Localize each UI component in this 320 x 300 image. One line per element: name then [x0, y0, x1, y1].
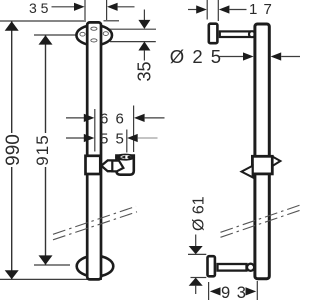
- dim 35 top arrow right-pointing: [74, 3, 85, 11]
- dim 915 arrow down: [39, 255, 53, 264]
- dim Ø61 arrow down: [189, 246, 203, 254]
- bottom bracket arm (side view): [218, 264, 247, 271]
- dim 915 arrow up: [39, 35, 53, 44]
- slide bar (side view): [255, 24, 269, 279]
- bottom wall flange ellipse (front view): [77, 256, 114, 277]
- dim 990 line upper: [11, 22, 13, 134]
- dim 35 right arrow up: [138, 42, 150, 51]
- dim 17 line right tail: [229, 9, 246, 11]
- slider lever left triangle (side view): [242, 166, 253, 178]
- hand shower axis line 1 (side view): [221, 205, 301, 232]
- svg-text:Ø 2 5: Ø 2 5: [170, 46, 223, 67]
- dim 915 top reference line: [34, 34, 76, 36]
- dim 990 arrow down: [5, 270, 19, 279]
- dim 990 top reference line: [0, 20, 86, 22]
- hand shower axis line 2 (front view): [53, 212, 137, 240]
- slider body (side view): [252, 156, 272, 174]
- svg-text:990: 990: [3, 134, 24, 166]
- top wall flange ellipse (front view): [76, 25, 112, 45]
- dim 35 right arrow down: [138, 20, 150, 29]
- dim 17 line left tail: [188, 9, 197, 11]
- dim 915 line upper: [45, 35, 47, 133]
- slider lever right triangle (side view): [273, 157, 281, 166]
- bottom wall flange (side view): [208, 256, 215, 276]
- dim 55 line right tail: [138, 137, 158, 139]
- dim 35 top extension line left: [84, 0, 86, 20]
- dim 55 arrow left-pointing: [127, 134, 138, 142]
- bar axis extension line: [94, 109, 96, 152]
- dim 35 right vertical line top: [143, 10, 145, 22]
- dim 66 line left: [66, 117, 85, 119]
- dim 990 bottom reference line: [0, 278, 102, 280]
- bottom bracket knuckle: [247, 264, 254, 271]
- dim Ø25 arrow left-pointing: [271, 52, 282, 60]
- dim Ø61 line upper: [195, 235, 197, 248]
- dim 35 right line tail: [143, 50, 145, 61]
- dim 17 arrow right-pointing: [196, 5, 207, 13]
- top wall flange (side view): [209, 24, 218, 44]
- holder clamp wedge: [112, 161, 123, 172]
- dim Ø61 top reference line: [188, 253, 206, 255]
- hand shower axis line 1 (front view): [53, 206, 136, 234]
- dim Ø61 bottom reference line: [191, 277, 207, 279]
- dim 17 extension line right: [217, 0, 219, 21]
- screw hole reference line upper: [110, 28, 156, 30]
- dim 66 arrow right-pointing: [84, 114, 95, 122]
- dim 17 extension line left: [206, 0, 208, 20]
- svg-text:Ø 61: Ø 61: [190, 196, 207, 231]
- slide bar (front view): [87, 22, 101, 279]
- dim 990 arrow up: [5, 21, 19, 31]
- flange screw hole bottom: [91, 39, 97, 42]
- dim Ø61 arrow up: [189, 278, 203, 286]
- top bracket arm (side view): [220, 31, 250, 37]
- holder outer extension line (66): [133, 106, 135, 153]
- dim 93 extension line right: [256, 281, 258, 300]
- flange screw hole top: [91, 27, 97, 30]
- dim 66 arrow left-pointing: [134, 114, 145, 122]
- dim 35 top line right tail: [118, 6, 135, 8]
- dim 915 bottom reference line: [34, 264, 70, 266]
- shower holder rim opening: [120, 155, 131, 159]
- dim Ø25 line left: [220, 56, 245, 58]
- slider body (front view): [86, 156, 101, 174]
- shower holder rim (dark band): [115, 154, 135, 161]
- dim 35 top arrow left-pointing: [107, 3, 118, 11]
- dim 93 extension line left: [208, 282, 210, 300]
- svg-text:35: 35: [134, 61, 154, 81]
- screw hole reference line lower: [110, 41, 156, 43]
- svg-text:915: 915: [33, 134, 52, 165]
- svg-text:6 6: 6 6: [100, 110, 125, 127]
- shower holder cylinder body: [116, 156, 133, 175]
- dim 990 line lower: [11, 167, 13, 279]
- holder extension line (55): [126, 130, 128, 153]
- dim 93 arrow right-pointing: [246, 287, 257, 295]
- dim 35 top line left: [52, 6, 76, 8]
- dim 17 arrow left-pointing: [219, 5, 230, 13]
- dim Ø61 line lower tail: [195, 285, 197, 294]
- svg-text:5 5: 5 5: [100, 130, 125, 147]
- dim Ø25 line right tail: [281, 56, 300, 58]
- dim 93 arrow left-pointing: [210, 287, 221, 295]
- svg-text:9 3: 9 3: [221, 284, 247, 300]
- bar top right stub line: [104, 20, 120, 22]
- shower holder cone mark: [121, 156, 126, 159]
- flange screw hole left: [80, 32, 85, 36]
- shower holder inner dot: [127, 156, 131, 159]
- dim 915 line lower: [45, 167, 47, 265]
- slider lever wedge: [101, 160, 116, 171]
- hand shower axis line 2 (side view): [221, 210, 301, 237]
- top bracket knuckle: [249, 31, 255, 37]
- dim Ø25 arrow right-pointing: [243, 52, 254, 60]
- flange screw hole right: [103, 32, 108, 36]
- dim 55 arrow right-pointing: [84, 134, 95, 142]
- svg-text:1 7: 1 7: [249, 1, 273, 18]
- svg-text:3 5: 3 5: [29, 0, 49, 16]
- dim 66 line right tail: [145, 117, 165, 119]
- dim 55 line left: [66, 137, 85, 139]
- dim 35 top extension line right: [106, 0, 108, 20]
